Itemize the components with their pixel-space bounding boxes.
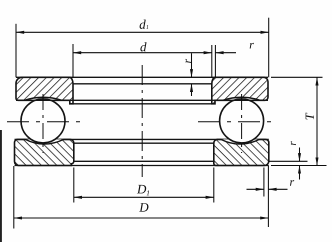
dimension r top right (215, 45, 236, 77)
label r bottom right (290, 180, 294, 186)
dimension D (14, 166, 269, 229)
bore fillet silhouette shaft washer (73, 83, 212, 85)
ball right (220, 99, 264, 143)
dimension d1 (16, 18, 269, 78)
centerline balls horizontal right (198, 121, 278, 123)
label r rotated (bore fillet) (186, 59, 191, 63)
label D1 (137, 185, 149, 196)
top face housing washer seg3 (259, 138, 269, 140)
dimension r vertical arrows (shaft washer bore fillet) (191, 53, 193, 96)
dimension r bottom right arrows (247, 168, 288, 197)
raceway groove bottom-left (25, 139, 63, 144)
shaft washer left section (hatched) (16, 77, 73, 104)
label d1 (140, 20, 149, 29)
label D (139, 203, 148, 212)
bore fillet silhouette housing washer (74, 142, 214, 144)
bottom face shaft washer (16, 99, 268, 101)
centerline bearing axis (141, 65, 143, 177)
centerline balls horizontal left (7, 121, 86, 123)
top face housing washer seg2 (64, 138, 221, 140)
lip bottom shaft washer (70, 103, 215, 105)
dimension r right side arrows (269, 148, 308, 180)
scan artifact left page edge (0, 130, 2, 242)
ball left (21, 99, 65, 143)
label d (140, 42, 146, 51)
top face housing washer seg1 (15, 138, 26, 140)
label r right side rotated (291, 141, 296, 145)
shaft washer right section (hatched) (212, 77, 268, 104)
raceway groove top-left (25, 97, 62, 100)
dimension T (271, 77, 327, 165)
label T (306, 113, 314, 120)
raceway groove bottom-right (221, 139, 259, 144)
dimension D1 (74, 168, 214, 203)
bottom face housing washer (15, 165, 269, 167)
centerline right ball vertical (241, 94, 243, 153)
housing washer left section (hatched) (15, 139, 74, 165)
label r top right (250, 43, 254, 49)
housing washer right section (hatched) (214, 139, 269, 165)
bottom fillet silhouette housing washer (74, 160, 214, 162)
top face shaft washer (16, 76, 268, 78)
raceway groove top-right (223, 97, 260, 100)
centerline left ball vertical (42, 94, 44, 153)
dimension d (73, 44, 212, 77)
